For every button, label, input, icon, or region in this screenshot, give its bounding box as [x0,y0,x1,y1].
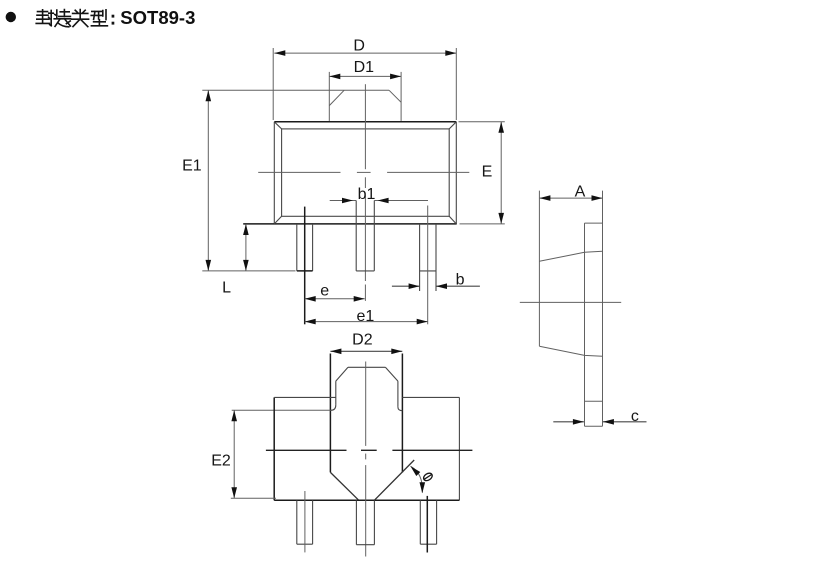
molded tab left chamfer [336,367,348,381]
svg-text:A: A [575,184,586,201]
char xing [91,10,107,26]
svg-text:E1: E1 [182,157,202,174]
tab left edge / D1 extension [328,72,330,121]
dimension D1 line [329,74,401,80]
bottom view [211,332,472,557]
theta angle arc [411,466,423,492]
svg-text:D: D [353,37,365,54]
dimension D extension lines [272,48,274,120]
svg-text:b1: b1 [358,186,376,203]
char zhuang [54,10,70,27]
bottom lead 2 (middle) [356,500,374,544]
E1 bottom extension / lead bottom level line [202,270,295,272]
svg-text:D2: D2 [352,332,373,349]
side column top [585,222,603,224]
dimension A line [539,195,602,201]
bottom lead 1 center line [304,491,306,552]
tab top line and E1 top extension [202,89,389,91]
lead 1 center extension (e/e1) [304,207,306,325]
side view center line [520,301,621,303]
E top extension [459,121,505,123]
body bottom edge / seating line [243,223,457,225]
molded tab left fillet [331,405,336,410]
side body left edge / A extension [538,191,540,347]
dimension e line [305,296,365,302]
body inner rectangle [282,129,450,216]
side column bottom [585,425,603,427]
colon [112,15,115,25]
body outer rectangle top [274,121,456,123]
dimension b1 right segment [374,198,428,204]
dimension b right segment [436,283,480,289]
horizontal center line [258,171,469,173]
vertical center line [364,84,366,301]
bottom view horizontal center line [266,449,473,451]
bottom body top edge right segment [402,396,459,398]
E2 bottom extension line [231,497,276,499]
lead 3 (right) [420,224,436,291]
side view [520,184,647,427]
svg-text:E: E [482,164,493,181]
side column left edge [584,223,586,426]
svg-text:c: c [631,408,639,425]
header text 封装类型: SOT89-3 [36,7,195,28]
side molding boundary on column [585,400,603,402]
molded tab left side [335,381,337,405]
body outer rectangle left [273,122,275,224]
body outer rectangle right [455,122,457,224]
tab metal right edge / D2 extension [401,354,403,473]
bottom lead 3 center line [426,496,428,553]
molded tab right chamfer [385,367,398,381]
char lei [72,10,89,27]
header bullet [6,12,16,22]
front view [182,37,505,325]
dimension b left segment [392,283,420,289]
bottom view vertical center line [365,362,367,557]
dimension E1 line [206,90,212,271]
dimension c right segment [603,419,647,425]
theta arc top arrow [411,466,421,476]
E2 top extension line [232,409,331,411]
dimension D2 line [330,349,402,355]
molded tab right fillet [398,407,403,411]
lead 2 (middle) [356,201,374,271]
tab metal left edge / D2 extension [329,354,331,473]
molded tab top [348,366,385,368]
svg-text:SOT89-3: SOT89-3 [120,7,195,28]
bottom body right edge [458,397,460,500]
molded tab right side [397,381,399,407]
funnel left diagonal [330,472,358,499]
bevel corner top-right [449,122,456,129]
svg-text:e1: e1 [357,308,375,325]
bevel corner top-left [274,122,281,129]
svg-text:E2: E2 [211,453,231,470]
char feng [36,10,53,26]
bottom lead 1 (left) [297,500,313,544]
side molding top slope [539,251,602,261]
bottom body bottom edge [274,499,459,501]
tab right edge / D1 extension [400,72,402,121]
theta arc bottom arrow [420,482,426,493]
dimension E line [498,122,504,224]
lead 1 (left) [297,224,313,271]
dimension b1 left segment [330,198,357,204]
svg-text:e: e [320,283,329,300]
svg-text:L: L [222,280,231,297]
bottom lead 3 (right) [420,500,436,544]
tab left chamfer [329,90,344,105]
bevel corner bottom-right [449,216,456,224]
side molding bottom slope [539,346,602,356]
tab right chamfer [389,90,401,102]
lead 3 center extension (e1) [427,206,429,325]
E bottom extension [460,223,505,225]
svg-text:b: b [456,272,465,289]
funnel right diagonal with extension [375,460,414,500]
dimension E2 line [231,410,237,498]
label theta [422,472,433,482]
bottom body top edge left segment [274,396,336,398]
dimension c left segment [553,419,584,425]
svg-text:D1: D1 [354,59,375,76]
dimension L line [243,224,249,271]
dimension e1 line [305,319,428,325]
bevel corner bottom-left [274,216,281,224]
side column right edge / A extension [602,191,604,427]
bottom body left edge [273,397,275,500]
dimension D line [274,50,456,56]
